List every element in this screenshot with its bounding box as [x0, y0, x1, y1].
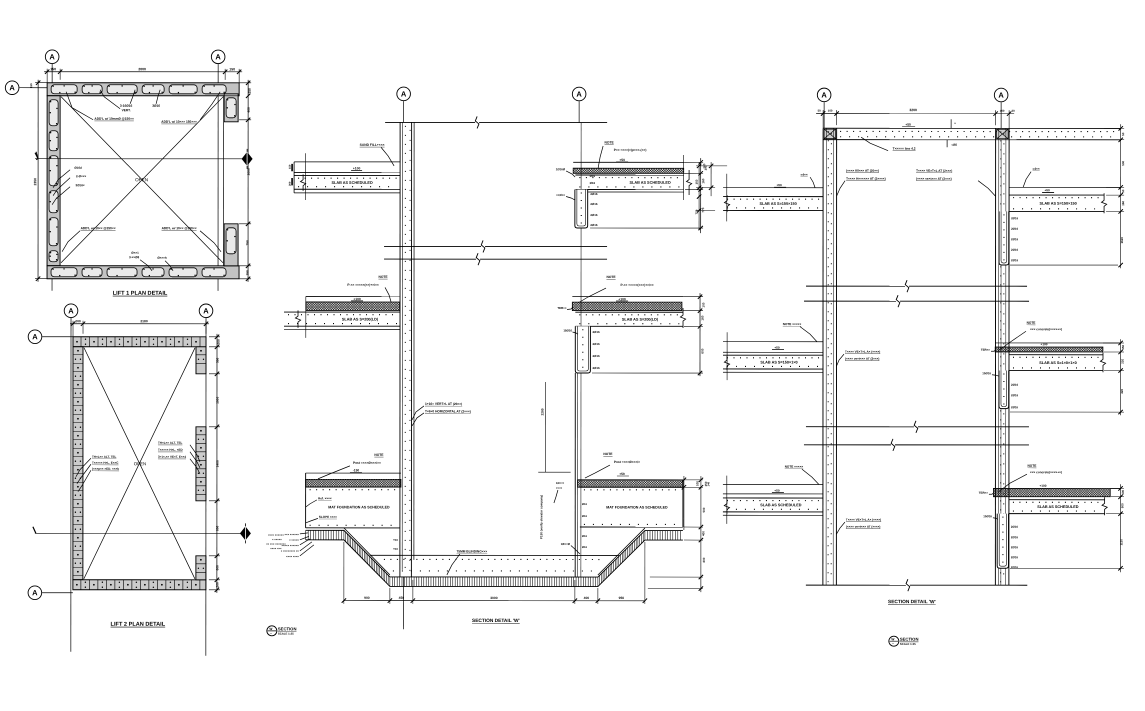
svg-text:3200: 3200 — [909, 108, 917, 112]
grid line horizontal lift 1 — [19, 87, 47, 89]
rs dim right col lower — [1119, 484, 1121, 572]
svg-text:500: 500 — [702, 507, 706, 512]
svg-text:Ø16: Ø16 — [582, 545, 588, 549]
svg-text:SLAB AS S=150×1×0: SLAB AS S=150×1×0 — [760, 360, 797, 364]
mid L1 right finish line — [573, 161, 684, 163]
mid L2 right dim — [699, 293, 701, 376]
lift2 right dim ext lines — [209, 336, 220, 338]
svg-text:OPEN: OPEN — [134, 461, 146, 466]
mid L1 right note leader — [598, 146, 603, 168]
svg-text:×××× ××××: ×××× ×××× — [286, 554, 299, 558]
svg-text:Post =×××Ø×××/×: Post =×××Ø×××/× — [614, 460, 640, 464]
lift1 note top-right leader — [200, 92, 220, 120]
svg-text:15Ø16: 15Ø16 — [563, 328, 572, 332]
svg-text:220: 220 — [1120, 358, 1124, 363]
rs dim ext lines right — [1104, 127, 1124, 129]
svg-text:450: 450 — [399, 596, 405, 600]
rs dim mid ext — [1103, 342, 1124, 344]
svg-text:T×6×0 HORIZONTAL AT (2×××): T×6×0 HORIZONTAL AT (2×××) — [425, 409, 471, 413]
rs grid stem left — [823, 102, 825, 128]
mat right screed — [578, 480, 683, 487]
svg-text:T×××× VE×T×L AT (2×××): T×××× VE×T×L AT (2×××) — [916, 169, 952, 173]
lift1 note top leader B — [156, 90, 160, 104]
svg-text:Ref. ××××: Ref. ×××× — [318, 496, 332, 500]
svg-text:NOTE ×××××: NOTE ××××× — [785, 465, 804, 469]
rs LB left soffit — [723, 371, 823, 373]
rs top dim ext — [822, 110, 824, 128]
svg-text:A: A — [9, 83, 15, 92]
svg-text:SCALE 1:25: SCALE 1:25 — [900, 642, 916, 646]
svg-text:T××××× line 4.2: T××××× line 4.2 — [893, 147, 916, 151]
lift1 inner face line right bottom — [224, 265, 238, 267]
mid break line lower — [384, 258, 476, 260]
svg-text:2Ø16: 2Ø16 — [1011, 545, 1018, 549]
rs break lower b — [804, 444, 891, 446]
lift1 note top-left leader — [66, 92, 93, 120]
svg-text:××××× ××××××: ××××× ×××××× — [282, 543, 300, 547]
rs dim right col mid — [1120, 339, 1122, 415]
svg-text:LIFT 2 PLAN DETAIL: LIFT 2 PLAN DETAIL — [111, 622, 166, 628]
lift2 left wall — [73, 347, 83, 580]
rs LC right slab — [1009, 499, 1105, 501]
lift1 bottom-left leader — [62, 231, 80, 252]
svg-text:Ø16: Ø16 — [590, 181, 596, 185]
lift1 inner face line right vertical — [223, 96, 225, 266]
rs top slab — [823, 127, 1121, 129]
svg-text:2Ø16: 2Ø16 — [1011, 227, 1018, 231]
mat left note leader — [318, 466, 350, 479]
pit blinding band — [306, 530, 683, 577]
mat right slab body — [580, 486, 683, 488]
lift1 bottom-right return wall — [224, 224, 238, 266]
rs top slab left corner block — [824, 129, 836, 139]
svg-text:--: -- — [892, 642, 894, 646]
svg-text:Ø16: Ø16 — [582, 502, 588, 506]
svg-text:150: 150 — [704, 481, 708, 486]
svg-text:2Ø16: 2Ø16 — [1011, 565, 1018, 569]
svg-text:800: 800 — [702, 557, 706, 562]
pit slope inner right — [598, 528, 645, 575]
svg-text:(×××× fill××× AT (20××): (×××× fill××× AT (20××) — [846, 169, 879, 173]
svg-text:2Ø16: 2Ø16 — [590, 202, 597, 206]
svg-text:A: A — [998, 91, 1004, 100]
svg-text:SLAB AS S=150×150: SLAB AS S=150×150 — [1039, 202, 1076, 206]
svg-text:2Ø16: 2Ø16 — [1011, 237, 1018, 241]
svg-text:200: 200 — [217, 339, 221, 345]
svg-text:2Ø16: 2Ø16 — [1011, 555, 1018, 559]
svg-text:950: 950 — [619, 596, 625, 600]
rs LC left ext vline — [726, 476, 728, 524]
svg-text:Ø××1: Ø××1 — [131, 251, 139, 255]
mat right dim ext lines — [683, 479, 703, 481]
rs LA beam — [999, 211, 1009, 265]
grid bubble A left of lift 1 plan — [5, 81, 19, 95]
svg-text:× ×××××××× ××: × ×××××××× ×× — [281, 549, 300, 553]
grid bubble A mid-section right — [572, 87, 586, 101]
svg-text:2Ø16: 2Ø16 — [1011, 383, 1018, 387]
rs LA left slab — [723, 196, 823, 198]
grid bubble A left-bottom lift 2 — [28, 586, 42, 600]
svg-text:××××: ×××× — [556, 486, 563, 490]
svg-text:+50: +50 — [619, 472, 625, 476]
mid L1 right edge beam — [575, 190, 588, 229]
svg-text:T××××× H×L. ×ED: T××××× H×L. ×ED — [158, 448, 184, 452]
rs LC beam — [997, 514, 1008, 569]
mid L2 left note leader — [385, 287, 391, 302]
svg-text:2Ø16: 2Ø16 — [592, 366, 599, 370]
svg-text:1400: 1400 — [215, 460, 219, 467]
svg-text:TER××: TER×× — [981, 348, 990, 352]
svg-text:SLAB AS SCHEDULED: SLAB AS SCHEDULED — [331, 181, 372, 185]
svg-text:--: -- — [270, 631, 272, 635]
svg-text:NOTE: NOTE — [374, 453, 384, 457]
svg-text:+100: +100 — [1039, 484, 1046, 488]
mid L1 right dim — [700, 158, 702, 233]
mid L1 left finish strip — [294, 161, 400, 163]
rs LA right slab — [1009, 194, 1104, 196]
mid far wall face line to pit — [574, 373, 576, 577]
mid left wall rebar dots — [404, 126, 406, 574]
lift2 bottom wall — [73, 580, 206, 590]
svg-text:NOTE: NOTE — [1027, 321, 1036, 325]
mid L1 left slab — [294, 175, 400, 177]
lift1 inner face line right top — [224, 95, 238, 97]
mid L1 left soffit line — [294, 192, 400, 194]
svg-text:2Ø16: 2Ø16 — [590, 213, 597, 217]
rs LA left dim col — [698, 162, 700, 230]
mid L2 right slab — [575, 311, 683, 313]
grid bubble A right-section left — [817, 88, 831, 102]
svg-text:MAT FOUNDATION AS SCHEDULED: MAT FOUNDATION AS SCHEDULED — [328, 505, 390, 509]
grid bubble A top-left lift 2 — [64, 304, 78, 318]
svg-text:400: 400 — [247, 107, 251, 113]
lift2 grid hline top — [42, 336, 73, 338]
rs LC right screed — [993, 488, 1110, 496]
rs LB right note leader — [999, 331, 1026, 350]
svg-text:SLAB AS SCHEDULED: SLAB AS SCHEDULED — [629, 181, 670, 185]
mat left finish line — [306, 472, 401, 474]
rs dim lower ext — [1111, 487, 1124, 489]
grid bubble A mid-section left — [397, 87, 411, 101]
svg-text:900: 900 — [364, 596, 370, 600]
lift1 top dimension line — [44, 71, 242, 73]
svg-text:SLAB AS S=1×0×1×0: SLAB AS S=1×0×1×0 — [1039, 361, 1076, 365]
lift1 bottom wall — [47, 266, 239, 279]
svg-text:NOTE: NOTE — [378, 275, 388, 279]
mid L2 left finish line — [306, 295, 400, 297]
mid dim 2200 line — [545, 382, 547, 472]
svg-text:A: A — [32, 332, 38, 341]
svg-text:TH×L×× ALT. TEL: TH×L×× ALT. TEL — [92, 455, 117, 459]
mid left wall — [399, 122, 401, 576]
rs top slab dots — [840, 130, 1116, 132]
rs LC right end break — [1102, 497, 1107, 515]
svg-text:T×××× VE×T×L A× (××××): T×××× VE×T×L A× (××××) — [846, 518, 881, 522]
rs LC left slab — [723, 497, 823, 499]
rs LA right finish line — [1009, 186, 1121, 188]
mid L2 left soffit line — [284, 328, 400, 330]
svg-text:200: 200 — [75, 319, 81, 323]
svg-text:A: A — [401, 90, 407, 99]
svg-text:××× concrete(××××+×): ××× concrete(××××+×) — [1030, 327, 1062, 331]
grid bubble A top-right of lift 1 plan — [211, 50, 225, 64]
rs LA left ext vline — [726, 174, 728, 222]
svg-text:1+16= VERT×L AT (20××): 1+16= VERT×L AT (20××) — [425, 402, 462, 406]
rs LC right note leader — [998, 474, 1027, 492]
svg-text:SLAB AS SCHEDULED: SLAB AS SCHEDULED — [760, 503, 801, 507]
lift2 centreline left mark — [33, 527, 36, 534]
lift2 grid hline bottom — [42, 592, 73, 594]
rs break lower a — [806, 426, 914, 428]
mid grid line right full height — [580, 123, 582, 577]
svg-text:NOTE: NOTE — [603, 452, 613, 456]
rs LB beam — [999, 371, 1009, 409]
rs LA left dim ext — [696, 165, 727, 167]
grid bubble A left-top lift 2 — [28, 330, 42, 344]
rs top slab right corner block — [997, 129, 1009, 139]
svg-text:2Ø16: 2Ø16 — [1011, 405, 1018, 409]
lift1 shaft diagonal 2 — [61, 97, 223, 263]
svg-text:2Ø16: 2Ø16 — [1011, 393, 1018, 397]
svg-text:SLOPE ××××: SLOPE ×××× — [319, 515, 337, 519]
svg-text:500: 500 — [215, 357, 219, 363]
svg-text:=4××: =4×× — [801, 173, 808, 177]
mid section stamp — [267, 626, 277, 636]
mid grid stem left — [403, 101, 405, 122]
rs left wall — [822, 128, 824, 585]
svg-text:600: 600 — [215, 565, 219, 571]
svg-text:+50: +50 — [905, 123, 911, 127]
svg-text:Y16: Y16 — [393, 547, 398, 551]
svg-text:50: 50 — [1121, 189, 1125, 193]
svg-text:400: 400 — [584, 596, 590, 600]
mid L1 left dim marks — [291, 164, 293, 171]
svg-text:=4××: =4×× — [1033, 167, 1040, 171]
pit bottom dim ticks — [342, 598, 346, 602]
svg-text:75MM BLINDING×××: 75MM BLINDING××× — [457, 549, 488, 553]
lift1 section diamond marker — [242, 152, 253, 166]
svg-text:NOTE: NOTE — [605, 141, 615, 145]
mid L2 left slab — [284, 311, 400, 313]
mat left edge — [305, 473, 307, 528]
mid L1 beam label leaders — [566, 171, 575, 177]
svg-text:OPEN: OPEN — [135, 177, 148, 182]
mat right edge — [682, 480, 684, 527]
svg-text:+100: +100 — [353, 166, 361, 170]
rs grid line right lower — [1000, 140, 1002, 585]
svg-text:400: 400 — [701, 531, 705, 536]
rs right wall — [994, 128, 996, 585]
rs stamp — [889, 636, 899, 646]
svg-text:15Ø16: 15Ø16 — [983, 514, 992, 518]
svg-text:ADD'L w/ 10mmØ @150××: ADD'L w/ 10mmØ @150×× — [94, 117, 134, 121]
svg-text:Ø16d: Ø16d — [74, 166, 82, 170]
lift2 right wall bottom segment — [196, 556, 206, 580]
svg-text:2180: 2180 — [140, 319, 148, 323]
rs LC left end break — [724, 499, 729, 514]
svg-text:2350: 2350 — [33, 178, 37, 186]
svg-text:SLAB AS S=200(LD): SLAB AS S=200(LD) — [622, 318, 659, 322]
rs LB left ext vline — [726, 332, 728, 380]
svg-text:-450: -450 — [951, 143, 957, 147]
svg-text:××× concrete(××××+×): ××× concrete(××××+×) — [1030, 470, 1062, 474]
mid L2 right edge beam — [575, 326, 590, 373]
lift1 centreline — [35, 158, 244, 160]
mat right dim ticks — [682, 478, 686, 482]
rs dim right col upper — [1120, 124, 1122, 268]
svg-text:A: A — [32, 588, 38, 597]
lift1 note top leader — [100, 90, 120, 109]
rs break upper b — [804, 300, 896, 302]
lift2 top dim ticks — [71, 322, 75, 326]
svg-text:× ×××××: × ××××× — [289, 538, 299, 542]
svg-text:200: 200 — [215, 582, 219, 588]
lift2 grid vline right — [205, 318, 207, 656]
lift1 left wall — [47, 96, 60, 266]
svg-text:NOTE: NOTE — [606, 275, 616, 279]
svg-text:(×××× ve×t××× AT (2×××): (×××× ve×t××× AT (2×××) — [916, 177, 952, 181]
rs LC right finish ext — [1110, 487, 1120, 489]
svg-text:750: 750 — [246, 240, 250, 246]
svg-text:Y16: Y16 — [393, 538, 398, 542]
grid bubble A top-right lift 2 — [199, 304, 213, 318]
svg-text:2Ø16: 2Ø16 — [592, 354, 599, 358]
mat left slab body — [306, 486, 400, 488]
mid L2 right note leader — [578, 288, 606, 303]
svg-text:A: A — [68, 306, 74, 315]
rs wall note left leader — [837, 181, 846, 197]
svg-text:2Ø16: 2Ø16 — [1011, 216, 1018, 220]
svg-text:Ø16: Ø16 — [582, 514, 588, 518]
lift2 right wall mid segment — [196, 427, 206, 501]
svg-text:Post =×××Ø×××/××: Post =×××Ø×××/×× — [353, 461, 381, 465]
rs LA left finish line — [723, 187, 823, 189]
svg-text:2200: 2200 — [540, 408, 544, 415]
svg-text:150: 150 — [229, 67, 235, 71]
mid L1 right dim ext — [684, 161, 703, 163]
mid grid stem right — [578, 101, 580, 122]
svg-text:+50: +50 — [776, 183, 782, 187]
lift1 left dim ext — [35, 82, 47, 84]
svg-text:P×× =×××(×)p×××-(××): P×× =×××(×)p×××-(××) — [614, 148, 647, 152]
mid L1 left ext line — [305, 153, 307, 200]
lift2 top dim line — [70, 323, 209, 325]
svg-text:A: A — [576, 90, 582, 99]
svg-text:ADD'L w/ 10××× 150×××: ADD'L w/ 10××× 150××× — [161, 120, 197, 124]
svg-text:+50: +50 — [619, 158, 625, 162]
svg-text:ADD'L w/ 10×× @150××: ADD'L w/ 10×× @150×× — [81, 226, 116, 230]
svg-text:1Ø××Ø: 1Ø××Ø — [561, 542, 571, 546]
mid L2 right dim ext — [683, 296, 703, 298]
svg-text:P150 (verify elevator company): P150 (verify elevator company) — [539, 495, 543, 539]
pit slab top dots — [384, 558, 604, 560]
lift2 right dim ticks — [215, 335, 219, 339]
rs LB right screed — [995, 347, 1103, 352]
svg-text:NOTE: NOTE — [1028, 464, 1037, 468]
rs LA right end break — [1101, 193, 1106, 213]
svg-text:3+1×,×× VE×T. E××4: 3+1×,×× VE×T. E××4 — [158, 455, 186, 459]
mid break line upper — [384, 245, 481, 247]
svg-text:770: 770 — [695, 209, 699, 214]
svg-text:TER××: TER×× — [557, 306, 566, 310]
svg-text:1120: 1120 — [1119, 539, 1123, 546]
svg-text:3Ø16: 3Ø16 — [152, 104, 160, 108]
svg-text:3-××Ø8: 3-××Ø8 — [129, 255, 140, 259]
svg-text:3000: 3000 — [490, 596, 498, 600]
svg-text:SLAB AS SCHEDULED: SLAB AS SCHEDULED — [1037, 505, 1078, 509]
svg-text:SECTION DETAIL 'W': SECTION DETAIL 'W' — [888, 599, 936, 605]
svg-text:160: 160 — [1121, 200, 1125, 205]
svg-text:2Ø16: 2Ø16 — [593, 342, 600, 346]
lift1 right dim ticks — [246, 81, 250, 85]
svg-text:500: 500 — [1120, 503, 1124, 508]
lift1 centreline left arrow — [36, 152, 38, 160]
svg-text:SCALE 1:25: SCALE 1:25 — [278, 632, 294, 636]
rs top dim ticks — [821, 111, 825, 115]
svg-text:100: 100 — [1000, 109, 1005, 113]
pit bottom dim line — [344, 600, 645, 602]
svg-text:SECTION: SECTION — [900, 637, 919, 642]
rs LB wall note leader — [836, 354, 844, 366]
svg-text:150: 150 — [248, 88, 252, 94]
grid bubble A top-left of lift 1 plan — [45, 50, 59, 64]
svg-text:(×××× ve×t××× AT (2×××): (×××× ve×t××× AT (2×××) — [845, 357, 879, 361]
lift2 right dim line — [216, 334, 218, 593]
svg-text:2000: 2000 — [247, 168, 251, 175]
lift2 top dim ext — [72, 321, 74, 337]
svg-text:100: 100 — [695, 481, 699, 486]
rs LC left soffit — [723, 514, 823, 516]
svg-text:2-Ø×××: 2-Ø××× — [76, 174, 87, 178]
svg-text:VERT.: VERT. — [122, 108, 131, 112]
lift1 top-right return wall — [224, 94, 238, 122]
svg-text:150: 150 — [288, 164, 292, 169]
svg-text:SLAB AS S=200(LD): SLAB AS S=200(LD) — [342, 317, 379, 321]
grid line vertical right lift 1 — [217, 64, 219, 291]
svg-text:2Ø16: 2Ø16 — [590, 223, 597, 227]
mid grid line left below pit — [402, 577, 404, 629]
grid bubble A right-section right — [994, 88, 1008, 102]
svg-text:2Ø16: 2Ø16 — [593, 330, 600, 334]
svg-text:×××× ××××××: ×××× ×××××× — [268, 533, 284, 537]
rs LA beam bottom ext — [1010, 264, 1118, 266]
lift1 top dim ext lines — [46, 69, 48, 83]
rs break upper a — [806, 285, 905, 287]
svg-text:T××××× H×L. E××C: T××××× H×L. E××C — [92, 461, 119, 465]
rs top dim line — [816, 113, 1014, 115]
svg-text:A: A — [821, 91, 827, 100]
svg-text:800: 800 — [215, 525, 219, 531]
svg-text:600: 600 — [700, 348, 704, 353]
rs LB left end break — [724, 356, 729, 370]
rs LB right end break — [1100, 352, 1105, 372]
rs wall note right leader — [978, 181, 996, 197]
svg-text:200: 200 — [288, 181, 292, 186]
svg-text:150: 150 — [695, 179, 699, 184]
svg-text:Ø×××h: Ø×××h — [157, 256, 167, 260]
svg-text:2Ø16: 2Ø16 — [1011, 525, 1018, 529]
svg-text:A: A — [203, 306, 209, 315]
svg-text:××× ××××××: ××× ×××××× — [285, 532, 300, 536]
svg-text:1000: 1000 — [215, 397, 219, 404]
svg-text:770: 770 — [701, 207, 705, 212]
lift1 left dim ticks — [36, 81, 40, 85]
svg-text:500: 500 — [1121, 160, 1125, 165]
svg-text:P-×× =××××(××)+×/××: P-×× =××××(××)+×/×× — [347, 283, 378, 287]
svg-text:1620: 1620 — [1120, 237, 1124, 244]
lift2 section diamond — [240, 526, 251, 540]
svg-text:(×××× ve×t××× AT (××××): (×××× ve×t××× AT (××××) — [846, 525, 881, 529]
